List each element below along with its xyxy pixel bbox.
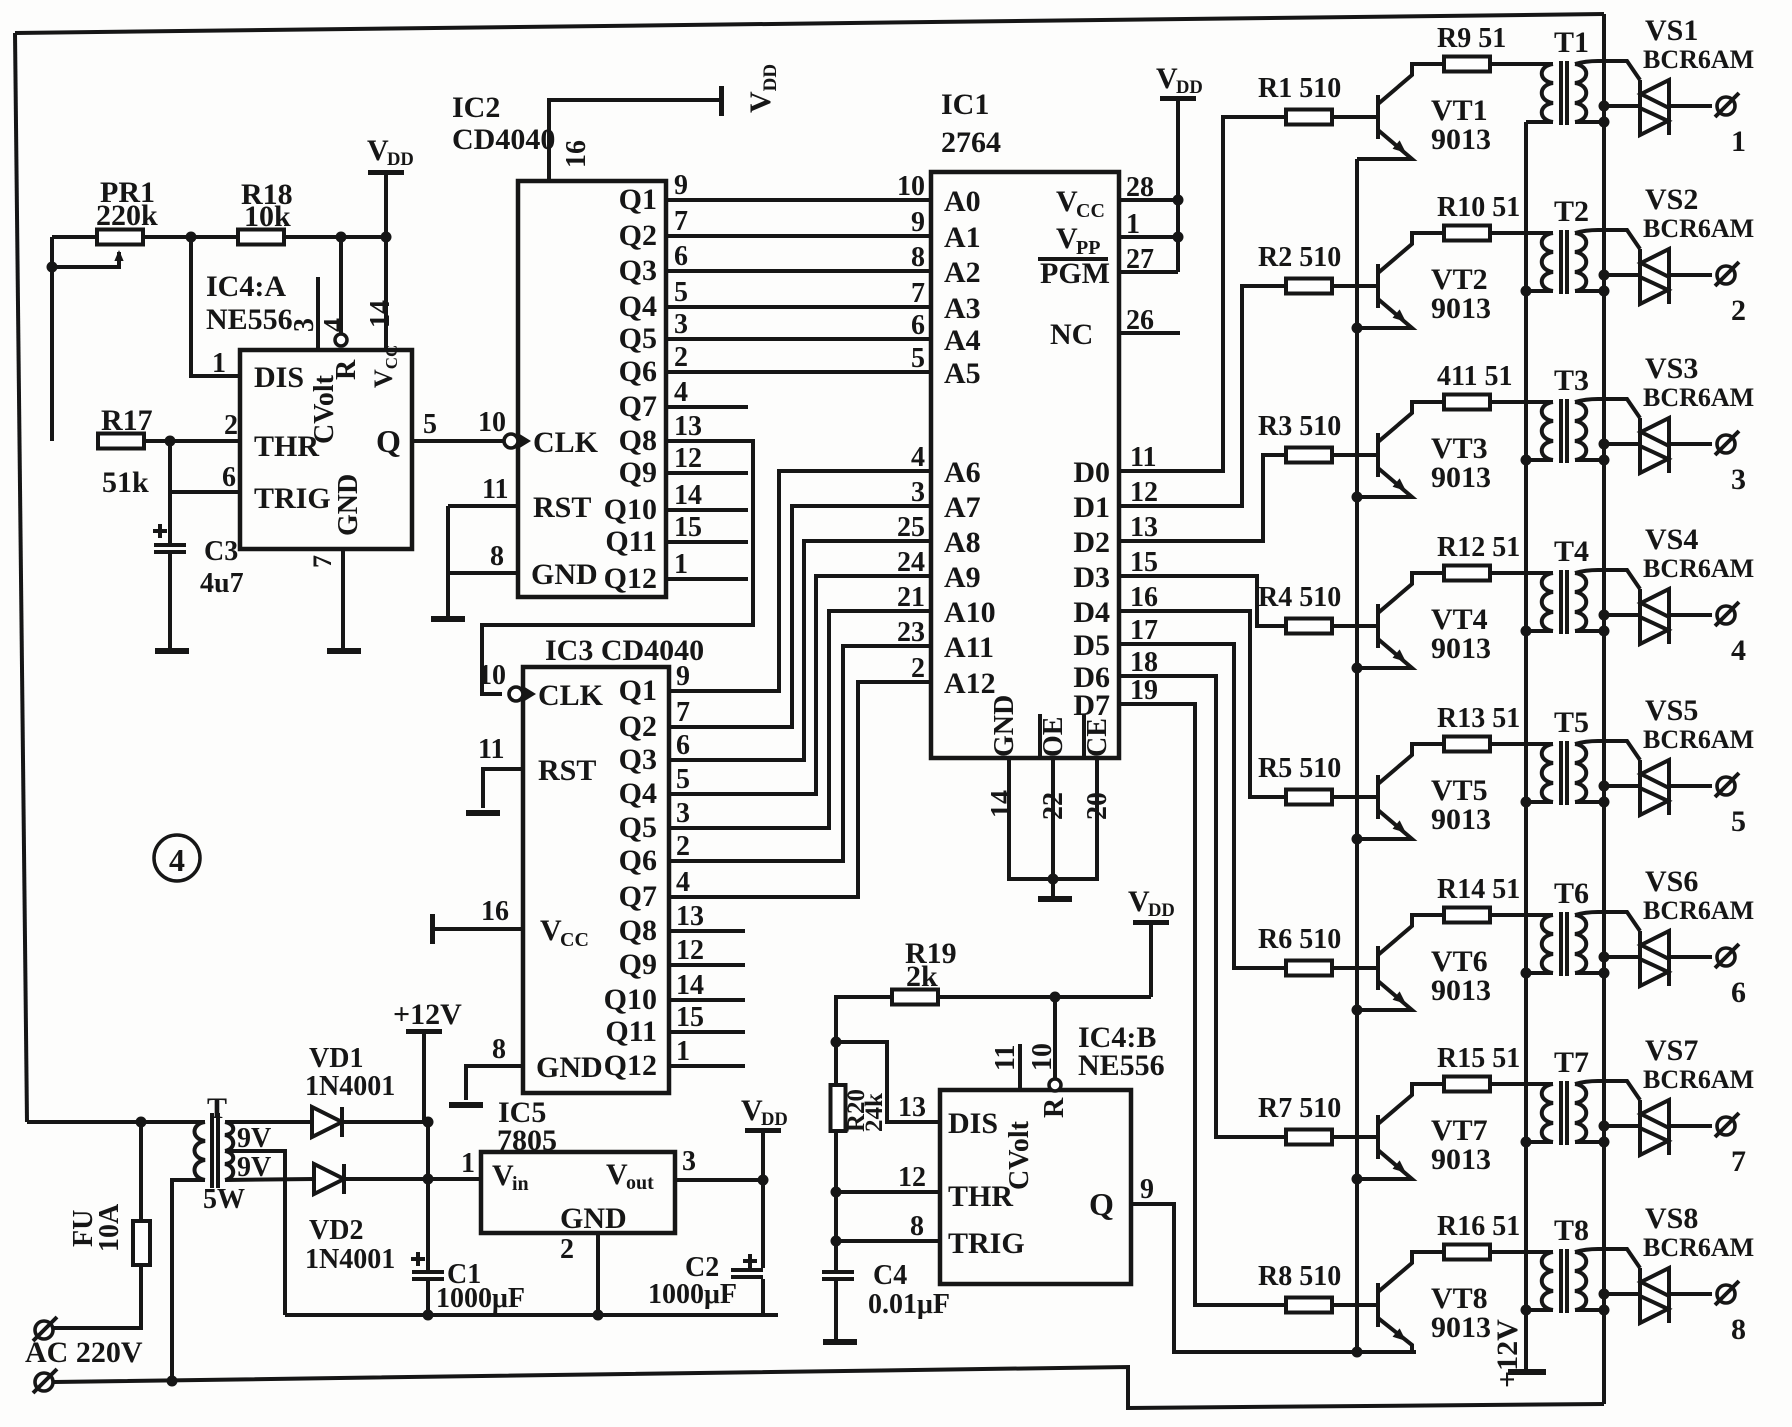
svg-text:5: 5 [911, 343, 925, 374]
svg-text:BCR6AM: BCR6AM [1643, 45, 1754, 74]
svg-text:A9: A9 [944, 561, 981, 594]
svg-text:2: 2 [911, 653, 925, 684]
svg-text:1N4001: 1N4001 [305, 1071, 395, 1102]
svg-text:V: V [1156, 62, 1178, 95]
svg-text:V: V [367, 134, 389, 167]
svg-text:220k: 220k [96, 199, 158, 232]
svg-text:in: in [512, 1173, 529, 1195]
svg-text:1: 1 [461, 1148, 475, 1179]
svg-text:R5 510: R5 510 [1258, 753, 1341, 784]
svg-text:DIS: DIS [948, 1107, 998, 1140]
svg-text:TRIG: TRIG [254, 482, 331, 515]
svg-text:13: 13 [898, 1092, 926, 1123]
svg-text:D3: D3 [1073, 561, 1110, 594]
svg-text:C4: C4 [873, 1260, 907, 1291]
svg-text:CE: CE [1082, 718, 1113, 757]
svg-text:7: 7 [308, 555, 337, 568]
svg-text:7: 7 [674, 206, 688, 237]
svg-text:411 51: 411 51 [1437, 361, 1512, 392]
svg-text:2: 2 [1731, 294, 1746, 327]
svg-text:1N4001: 1N4001 [305, 1244, 395, 1275]
svg-text:6: 6 [674, 241, 688, 272]
svg-text:1: 1 [1731, 125, 1746, 158]
svg-text:6: 6 [911, 310, 925, 341]
svg-text:7: 7 [676, 697, 690, 728]
svg-text:Q5: Q5 [619, 811, 657, 844]
svg-text:V: V [492, 1159, 514, 1192]
svg-text:+12V: +12V [1491, 1319, 1524, 1388]
svg-text:R10 51: R10 51 [1437, 192, 1520, 223]
svg-text:BCR6AM: BCR6AM [1643, 214, 1754, 243]
svg-text:GND: GND [989, 695, 1020, 757]
svg-text:26: 26 [1126, 305, 1154, 336]
svg-text:BCR6AM: BCR6AM [1643, 896, 1754, 925]
svg-text:3: 3 [1731, 463, 1746, 496]
svg-text:Q10: Q10 [604, 493, 657, 526]
svg-text:22: 22 [1038, 792, 1069, 820]
svg-text:VD1: VD1 [309, 1043, 363, 1074]
svg-text:1: 1 [1126, 209, 1140, 240]
svg-text:2764: 2764 [941, 126, 1001, 159]
svg-text:V: V [1128, 885, 1150, 918]
svg-text:A6: A6 [944, 456, 981, 489]
svg-text:28: 28 [1126, 172, 1154, 203]
svg-text:CLK: CLK [538, 679, 604, 712]
svg-text:Q9: Q9 [619, 948, 657, 981]
svg-text:DD: DD [761, 1109, 788, 1130]
svg-text:R17: R17 [101, 404, 153, 437]
svg-text:GND: GND [531, 558, 598, 591]
svg-text:VD2: VD2 [309, 1215, 363, 1246]
svg-text:11: 11 [990, 1045, 1021, 1071]
svg-text:9: 9 [911, 207, 925, 238]
svg-text:15: 15 [674, 512, 702, 543]
svg-text:11: 11 [1130, 442, 1156, 473]
svg-text:A8: A8 [944, 526, 981, 559]
svg-text:1: 1 [676, 1036, 690, 1067]
svg-text:27: 27 [1126, 244, 1154, 275]
svg-text:13: 13 [674, 411, 702, 442]
svg-text:BCR6AM: BCR6AM [1643, 1065, 1754, 1094]
svg-text:25: 25 [897, 512, 925, 543]
svg-text:A7: A7 [944, 491, 981, 524]
svg-text:A1: A1 [944, 221, 981, 254]
svg-text:5: 5 [676, 764, 690, 795]
svg-text:1000μF: 1000μF [436, 1283, 525, 1314]
svg-text:9013: 9013 [1431, 461, 1491, 494]
svg-text:16: 16 [561, 140, 592, 168]
svg-text:Q2: Q2 [619, 710, 657, 743]
svg-text:23: 23 [897, 617, 925, 648]
svg-text:5: 5 [674, 277, 688, 308]
svg-text:4: 4 [674, 377, 688, 408]
svg-text:OE: OE [1038, 717, 1069, 757]
svg-text:R8 510: R8 510 [1258, 1261, 1341, 1292]
svg-text:10: 10 [478, 407, 506, 438]
svg-text:14: 14 [365, 300, 396, 328]
svg-text:10: 10 [1027, 1043, 1058, 1071]
svg-text:51k: 51k [102, 466, 149, 499]
svg-text:BCR6AM: BCR6AM [1643, 1233, 1754, 1262]
svg-text:9013: 9013 [1431, 1143, 1491, 1176]
svg-text:Q12: Q12 [604, 562, 657, 595]
svg-text:Q: Q [1089, 1186, 1114, 1222]
svg-text:9013: 9013 [1431, 974, 1491, 1007]
svg-text:15: 15 [676, 1002, 704, 1033]
svg-text:6: 6 [222, 462, 236, 493]
svg-text:Q12: Q12 [604, 1049, 657, 1082]
svg-text:16: 16 [1130, 582, 1158, 613]
svg-text:GND: GND [536, 1051, 603, 1084]
svg-text:4u7: 4u7 [200, 568, 244, 599]
svg-text:DD: DD [1148, 900, 1175, 921]
svg-text:A3: A3 [944, 292, 981, 325]
svg-text:R7 510: R7 510 [1258, 1093, 1341, 1124]
svg-text:D4: D4 [1073, 596, 1110, 629]
svg-text:8: 8 [490, 541, 504, 572]
svg-text:CC: CC [1076, 200, 1105, 222]
svg-text:A2: A2 [944, 256, 981, 289]
svg-text:IC1: IC1 [941, 88, 989, 121]
svg-text:D5: D5 [1073, 629, 1110, 662]
svg-text:7: 7 [1731, 1145, 1746, 1178]
svg-text:A12: A12 [944, 667, 996, 700]
svg-text:7: 7 [911, 278, 925, 309]
svg-text:13: 13 [1130, 512, 1158, 543]
svg-text:4: 4 [1731, 634, 1746, 667]
svg-text:V: V [540, 914, 562, 947]
svg-text:CC: CC [560, 929, 589, 951]
svg-text:VS4: VS4 [1645, 523, 1698, 556]
svg-text:10: 10 [478, 660, 506, 691]
svg-text:V: V [741, 1094, 763, 1127]
svg-text:VS1: VS1 [1645, 14, 1698, 47]
svg-text:R6 510: R6 510 [1258, 924, 1341, 955]
svg-text:A5: A5 [944, 357, 981, 390]
svg-text:5W: 5W [203, 1184, 245, 1215]
svg-text:Q6: Q6 [619, 355, 657, 388]
svg-text:VS5: VS5 [1645, 694, 1698, 727]
svg-text:17: 17 [1130, 615, 1158, 646]
svg-text:R14 51: R14 51 [1437, 874, 1520, 905]
svg-text:8: 8 [492, 1034, 506, 1065]
svg-text:11: 11 [478, 734, 504, 765]
svg-text:2: 2 [224, 410, 238, 441]
svg-text:9: 9 [1140, 1174, 1154, 1205]
svg-text:Q4: Q4 [619, 777, 657, 810]
svg-text:16: 16 [481, 896, 509, 927]
svg-text:19: 19 [1130, 675, 1158, 706]
svg-text:Q1: Q1 [619, 674, 657, 707]
svg-text:2k: 2k [906, 960, 938, 993]
svg-text:R1 510: R1 510 [1258, 73, 1341, 104]
svg-text:1: 1 [674, 549, 688, 580]
svg-text:Q: Q [376, 423, 401, 459]
svg-text:Q9: Q9 [619, 456, 657, 489]
svg-text:9013: 9013 [1431, 292, 1491, 325]
svg-text:3: 3 [682, 1146, 696, 1177]
svg-text:Q3: Q3 [619, 743, 657, 776]
svg-text:9: 9 [674, 170, 688, 201]
svg-text:Q11: Q11 [605, 525, 657, 558]
svg-text:8: 8 [1731, 1313, 1746, 1346]
svg-text:CVolt: CVolt [1004, 1120, 1035, 1190]
svg-text:CLK: CLK [533, 426, 599, 459]
svg-text:9013: 9013 [1431, 1311, 1491, 1344]
svg-text:R: R [1039, 1097, 1070, 1118]
svg-text:VS8: VS8 [1645, 1202, 1698, 1235]
svg-text:DIS: DIS [254, 361, 304, 394]
svg-text:18: 18 [1130, 647, 1158, 678]
svg-text:TRIG: TRIG [948, 1227, 1025, 1260]
svg-text:6: 6 [676, 730, 690, 761]
svg-text:GND: GND [560, 1202, 627, 1235]
svg-text:RST: RST [538, 754, 596, 787]
svg-text:24k: 24k [861, 1093, 888, 1132]
svg-text:12: 12 [1130, 477, 1158, 508]
svg-text:BCR6AM: BCR6AM [1643, 383, 1754, 412]
svg-text:A0: A0 [944, 185, 981, 218]
svg-text:T4: T4 [1554, 535, 1589, 568]
svg-text:V: V [1056, 185, 1078, 218]
svg-text:14: 14 [986, 790, 1017, 818]
svg-text:3: 3 [674, 309, 688, 340]
svg-text:T2: T2 [1554, 195, 1589, 228]
svg-text:R2 510: R2 510 [1258, 242, 1341, 273]
svg-text:R12 51: R12 51 [1437, 532, 1520, 563]
svg-text:2: 2 [674, 342, 688, 373]
svg-text:RST: RST [533, 491, 591, 524]
svg-text:1000μF: 1000μF [648, 1279, 737, 1310]
svg-text:2: 2 [560, 1234, 574, 1265]
svg-text:12: 12 [674, 443, 702, 474]
svg-text:4: 4 [676, 867, 690, 898]
svg-text:14: 14 [674, 480, 702, 511]
svg-text:+12V: +12V [393, 998, 462, 1031]
svg-text:4: 4 [911, 442, 925, 473]
svg-text:D2: D2 [1073, 526, 1110, 559]
svg-text:9V: 9V [237, 1152, 271, 1183]
svg-text:AC 220V: AC 220V [25, 1336, 143, 1369]
svg-text:D7: D7 [1073, 689, 1110, 722]
svg-text:12: 12 [676, 935, 704, 966]
svg-text:7805: 7805 [497, 1124, 557, 1157]
svg-text:R: R [331, 359, 362, 380]
svg-text:R4 510: R4 510 [1258, 582, 1341, 613]
svg-text:D0: D0 [1073, 456, 1110, 489]
svg-text:Q1: Q1 [619, 183, 657, 216]
svg-text:Q11: Q11 [605, 1015, 657, 1048]
svg-text:T1: T1 [1554, 26, 1589, 59]
svg-text:BCR6AM: BCR6AM [1643, 554, 1754, 583]
svg-text:R16 51: R16 51 [1437, 1211, 1520, 1242]
svg-text:NE556: NE556 [206, 303, 293, 336]
svg-text:V: V [606, 1158, 628, 1191]
svg-text:20: 20 [1082, 792, 1113, 820]
svg-text:VS2: VS2 [1645, 183, 1698, 216]
svg-text:24: 24 [897, 547, 925, 578]
svg-text:5: 5 [1731, 805, 1746, 838]
svg-text:Q6: Q6 [619, 844, 657, 877]
svg-text:Q5: Q5 [619, 322, 657, 355]
svg-text:T5: T5 [1554, 706, 1589, 739]
svg-text:T3: T3 [1554, 364, 1589, 397]
svg-text:Q7: Q7 [619, 880, 657, 913]
svg-text:Q3: Q3 [619, 254, 657, 287]
svg-text:T: T [207, 1092, 227, 1125]
svg-text:1: 1 [212, 348, 226, 379]
svg-text:13: 13 [676, 901, 704, 932]
svg-text:9: 9 [676, 661, 690, 692]
svg-text:3: 3 [289, 318, 320, 332]
svg-text:Q4: Q4 [619, 290, 657, 323]
svg-text:IC4:A: IC4:A [206, 270, 286, 303]
svg-text:R15 51: R15 51 [1437, 1043, 1520, 1074]
svg-text:12: 12 [898, 1162, 926, 1193]
svg-text:0.01μF: 0.01μF [868, 1289, 950, 1320]
svg-text:Q7: Q7 [619, 390, 657, 423]
svg-text:9013: 9013 [1431, 632, 1491, 665]
svg-text:D1: D1 [1073, 491, 1110, 524]
svg-text:T7: T7 [1554, 1046, 1589, 1079]
svg-text:15: 15 [1130, 547, 1158, 578]
svg-text:C3: C3 [204, 536, 238, 567]
svg-text:R13 51: R13 51 [1437, 703, 1520, 734]
svg-text:14: 14 [676, 970, 704, 1001]
svg-text:9013: 9013 [1431, 123, 1491, 156]
svg-text:VS3: VS3 [1645, 352, 1698, 385]
svg-text:CVolt: CVolt [309, 374, 340, 444]
svg-text:Q8: Q8 [619, 424, 657, 457]
svg-text:V: V [1056, 222, 1078, 255]
svg-text:A4: A4 [944, 324, 981, 357]
svg-text:DD: DD [1176, 77, 1203, 98]
svg-text:CD4040: CD4040 [452, 123, 555, 156]
svg-text:10: 10 [897, 171, 925, 202]
svg-text:5: 5 [423, 409, 437, 440]
svg-text:4: 4 [319, 318, 350, 332]
svg-text:8: 8 [911, 242, 925, 273]
svg-text:6: 6 [1731, 976, 1746, 1009]
svg-text:IC2: IC2 [452, 91, 500, 124]
svg-text:DD: DD [387, 149, 414, 170]
svg-text:3: 3 [676, 798, 690, 829]
svg-text:PP: PP [1076, 237, 1100, 259]
svg-text:10A: 10A [94, 1203, 125, 1252]
svg-text:Q2: Q2 [619, 219, 657, 252]
svg-text:R9 51: R9 51 [1437, 23, 1506, 54]
svg-text:T8: T8 [1554, 1214, 1589, 1247]
svg-text:4: 4 [169, 842, 185, 878]
svg-text:9013: 9013 [1431, 803, 1491, 836]
svg-text:A10: A10 [944, 596, 996, 629]
svg-text:11: 11 [482, 474, 508, 505]
svg-text:10k: 10k [244, 200, 291, 233]
svg-text:out: out [626, 1172, 654, 1194]
svg-text:Q8: Q8 [619, 914, 657, 947]
svg-text:2: 2 [676, 831, 690, 862]
svg-text:PGM: PGM [1040, 257, 1110, 290]
svg-text:BCR6AM: BCR6AM [1643, 725, 1754, 754]
svg-text:VS6: VS6 [1645, 865, 1698, 898]
svg-text:8: 8 [910, 1211, 924, 1242]
svg-text:A11: A11 [944, 631, 994, 664]
svg-text:3: 3 [911, 477, 925, 508]
svg-text:NC: NC [1050, 318, 1093, 351]
svg-text:Q10: Q10 [604, 983, 657, 1016]
svg-text:R3 510: R3 510 [1258, 411, 1341, 442]
svg-text:T6: T6 [1554, 877, 1589, 910]
svg-text:21: 21 [897, 582, 925, 613]
svg-text:9V: 9V [237, 1123, 271, 1154]
svg-text:VS7: VS7 [1645, 1034, 1698, 1067]
svg-text:NE556: NE556 [1078, 1049, 1165, 1082]
svg-text:GND: GND [333, 474, 364, 536]
